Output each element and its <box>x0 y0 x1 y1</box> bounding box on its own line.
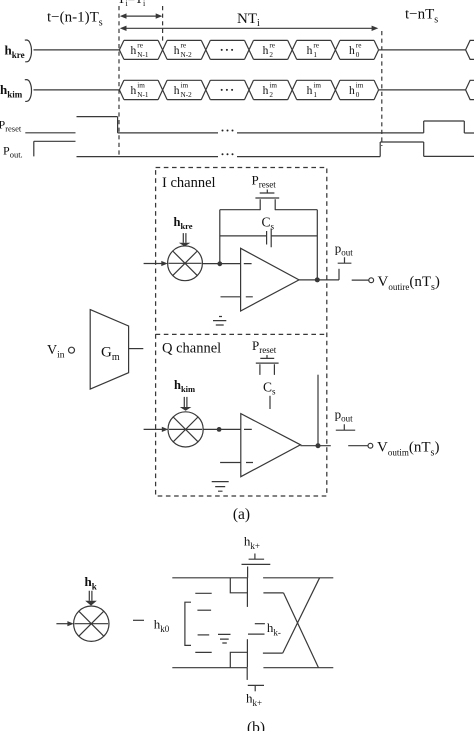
wire op-amp output to node (I) <box>299 279 317 281</box>
bottom gate jog <box>230 652 247 667</box>
svg-text:im: im <box>356 81 364 89</box>
inner top rail <box>263 592 283 594</box>
transistor h_k+ bottom <box>247 668 264 691</box>
coefficient arrow h_k <box>85 591 97 606</box>
svg-text:re: re <box>137 41 143 49</box>
svg-text:0: 0 <box>356 91 360 99</box>
Ti span arrow <box>120 13 163 18</box>
svg-text:h: h <box>307 45 313 57</box>
svg-text:hk+: hk+ <box>246 691 262 709</box>
wire row1 right <box>379 49 466 51</box>
input terminal circle V_in <box>69 347 75 353</box>
wire row2 right <box>379 89 466 91</box>
svg-text:Voutim(nTs): Voutim(nTs) <box>377 439 439 458</box>
svg-text:Preset: Preset <box>252 338 277 355</box>
dashed divider I/Q <box>156 333 327 335</box>
middle vertical bottom segment <box>246 639 248 668</box>
svg-text:re: re <box>313 41 319 49</box>
svg-text:1: 1 <box>313 91 317 99</box>
svg-text:h: h <box>307 85 313 97</box>
capacitor lead (Q) <box>269 396 271 409</box>
output wire (I) <box>317 279 369 281</box>
label -h_k- <box>255 623 265 625</box>
op-amp U1 (I) <box>241 248 299 311</box>
wire row1 left <box>34 49 120 51</box>
ellipsis p_reset <box>222 130 234 132</box>
ellipsis p_out <box>222 153 234 155</box>
multiplier (b) <box>74 606 109 641</box>
multiplier (Q) <box>168 412 203 447</box>
wire op-amp output to node (Q) <box>301 445 319 447</box>
svg-text:hk+: hk+ <box>244 534 260 552</box>
svg-text:h: h <box>174 85 180 97</box>
svg-text:(a): (a) <box>233 506 250 523</box>
switch p_out (I) <box>338 257 352 280</box>
wire multiplier to op-amp (I) <box>202 263 240 265</box>
svg-text:pout: pout <box>335 241 354 258</box>
output terminal circle (Q) <box>368 443 373 448</box>
output node dot (I) <box>315 277 320 282</box>
svg-text:2: 2 <box>269 91 273 99</box>
svg-text:Pout.: Pout. <box>3 144 23 160</box>
svg-text:re: re <box>356 41 362 49</box>
output node dot (Q) <box>316 443 321 448</box>
gate bar 1 (h_k0) <box>195 592 211 594</box>
svg-text:Preset: Preset <box>252 173 277 190</box>
svg-text:N-2: N-2 <box>181 91 193 99</box>
svg-text:Ti=Ti: Ti=Ti <box>118 0 146 8</box>
gate bar 4 (h_k0) <box>195 651 211 653</box>
dashed box I/Q channels <box>156 168 327 497</box>
svg-text:hk: hk <box>85 574 97 592</box>
top rail <box>172 577 333 579</box>
transistor switch p_reset (I) <box>255 190 279 211</box>
op-amp U2 (Q) <box>241 414 301 477</box>
multiplier (I) <box>168 246 203 281</box>
svg-text:re: re <box>181 41 187 49</box>
svg-text:h: h <box>131 85 137 97</box>
top gate jog <box>230 578 247 593</box>
op-amp U1 input dashes <box>244 264 253 297</box>
svg-text:N-1: N-1 <box>137 51 149 59</box>
svg-text:Cs: Cs <box>263 380 276 397</box>
bus opening right edge row1 <box>466 40 474 59</box>
svg-text:im: im <box>137 81 145 89</box>
svg-text:h: h <box>349 85 355 97</box>
bottom rail <box>172 667 333 669</box>
wire G_m output <box>129 348 144 350</box>
multiplier (I) input wire <box>144 263 162 265</box>
svg-text:h: h <box>131 45 137 57</box>
ground (b) <box>218 634 231 643</box>
svg-text:t−(n-1)Ts: t−(n-1)Ts <box>47 10 103 29</box>
svg-text:NTi: NTi <box>237 11 260 29</box>
bracket mark row1 <box>25 40 32 62</box>
svg-text:im: im <box>269 81 277 89</box>
svg-text:(b): (b) <box>247 720 265 731</box>
junction dot inverting (Q) <box>217 427 222 432</box>
svg-text:h: h <box>263 45 269 57</box>
junction dot inverting (I) <box>217 261 222 266</box>
coefficient arrow h_kim <box>180 397 192 411</box>
switch p_out (Q) <box>336 424 355 430</box>
waveform p_reset <box>25 117 218 133</box>
svg-text:Gm: Gm <box>101 345 120 364</box>
svg-text:h: h <box>263 85 269 97</box>
dashed marker line right <box>381 31 383 146</box>
feedback wire top (I) <box>220 209 317 211</box>
svg-text:pout: pout <box>335 407 354 424</box>
cross wire 1 <box>283 578 320 653</box>
capacitor C_s (I) <box>220 229 317 248</box>
ground (I) <box>213 317 226 326</box>
svg-text:Preset: Preset <box>0 118 22 134</box>
ellipsis cell row2 <box>221 89 233 91</box>
cross wire 2 <box>284 593 319 668</box>
gate bar h_k- <box>248 633 265 635</box>
svg-text:I channel: I channel <box>162 175 216 191</box>
G_m transconductor <box>90 310 128 390</box>
output terminal circle (I) <box>369 278 374 283</box>
svg-text:im: im <box>181 81 189 89</box>
ground (Q) <box>212 482 229 492</box>
svg-text:1: 1 <box>313 51 317 59</box>
dashed marker line left <box>118 6 120 157</box>
bus waveform h_kre <box>119 40 378 59</box>
wire: inverting node vertical (I) <box>219 210 221 264</box>
gate bar 3 (h_k0) <box>198 634 210 636</box>
svg-text:hk-: hk- <box>267 620 281 638</box>
svg-text:2: 2 <box>269 51 273 59</box>
wire: right vertical to output node (I) <box>316 210 318 280</box>
op-amp U1 + input wire <box>221 296 241 298</box>
middle vertical top segment <box>246 578 248 607</box>
wire C_s node vertical (Q) <box>317 375 319 446</box>
bracket h_k0 <box>185 602 191 645</box>
coefficient arrow h_kre <box>179 233 191 246</box>
op-amp U2 + input wire <box>220 462 241 464</box>
wire multiplier to op-amp (Q) <box>203 428 241 430</box>
svg-text:Q channel: Q channel <box>162 341 221 357</box>
svg-text:t−nTs: t−nTs <box>405 7 438 26</box>
svg-text:Cs: Cs <box>262 215 275 232</box>
waveform p_out <box>34 141 218 156</box>
wire row2 left <box>34 89 120 91</box>
output wire (Q) <box>318 445 368 447</box>
svg-text:im: im <box>313 81 321 89</box>
svg-text:0: 0 <box>356 51 360 59</box>
svg-text:h: h <box>174 45 180 57</box>
svg-text:hkre: hkre <box>174 215 193 231</box>
svg-text:hkim: hkim <box>0 82 23 100</box>
gate bar 2 (h_k0) <box>197 609 211 611</box>
NTi span arrow <box>120 26 379 31</box>
svg-text:hk0: hk0 <box>154 617 170 635</box>
svg-text:hkim: hkim <box>174 378 195 394</box>
svg-text:Vin: Vin <box>47 343 65 361</box>
dashed marker line Ti <box>162 6 164 42</box>
svg-text:h: h <box>349 45 355 57</box>
bracket mark row2 <box>25 80 32 102</box>
op-amp U2 input dashes <box>244 429 253 462</box>
svg-text:Voutire(nTs): Voutire(nTs) <box>378 274 440 293</box>
svg-text:hkre: hkre <box>5 43 25 61</box>
bus waveform h_kim <box>119 80 378 99</box>
bus opening right edge row2 <box>466 80 474 99</box>
multiplier (Q) input wire <box>144 428 163 430</box>
svg-text:N-1: N-1 <box>137 91 149 99</box>
ellipsis cell row1 <box>221 49 233 51</box>
transistor h_k+ top <box>242 554 271 578</box>
transistor switch p_reset (Q) <box>256 355 279 375</box>
svg-text:N-2: N-2 <box>181 51 193 59</box>
label -h_k0 <box>133 619 144 621</box>
svg-text:re: re <box>269 41 275 49</box>
inner bottom rail <box>263 652 283 654</box>
multiplier (b) input wire <box>56 623 68 625</box>
